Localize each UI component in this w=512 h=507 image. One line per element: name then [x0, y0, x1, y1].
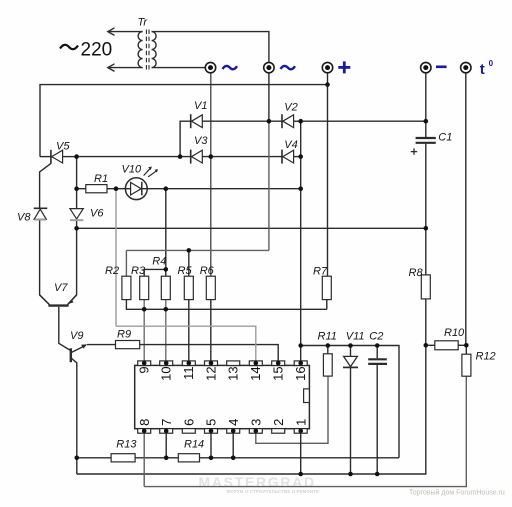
resistor R9: [116, 341, 140, 349]
wire node V5-V3 down to R1: [76, 157, 78, 189]
svg-text:1: 1: [293, 419, 308, 426]
wire C1 bottom column: [425, 144, 427, 229]
svg-text:V10: V10: [122, 163, 142, 175]
wire V8 cathode... wait V8 bottom to V7 collector: [40, 220, 50, 305]
thyristor V5: [51, 150, 63, 164]
wire R1 left stub: [77, 188, 86, 190]
wire bottom bus y474: [77, 299, 426, 474]
wire V6 bottom bus across: [77, 227, 426, 229]
resistor R2: [122, 276, 131, 299]
svg-text:R13: R13: [116, 439, 137, 451]
svg-text:MASTERGRAD: MASTERGRAD: [199, 474, 316, 490]
wire pin 8 column down: [143, 433, 145, 486]
svg-text:ФОРУМ О СТРОИТЕЛЬСТВЕ И РЕМОНТ: ФОРУМ О СТРОИТЕЛЬСТВЕ И РЕМОНТЕ: [227, 489, 320, 494]
diode V4: [282, 150, 294, 164]
svg-text:V11: V11: [346, 330, 365, 342]
svg-text:R9: R9: [117, 329, 131, 341]
wire gray across to pin 14: [116, 326, 256, 363]
pin 10 pad: [160, 361, 173, 366]
wire node column x301 down to pin 16: [300, 121, 302, 363]
zener V8: [34, 208, 48, 219]
wire R8 top leg: [425, 228, 427, 275]
capacitor C2: [368, 359, 387, 364]
wire V11 top leg: [350, 346, 352, 357]
wire R1-LED node down gray: [115, 189, 117, 327]
wire V1 anode to node B: [202, 120, 282, 122]
wire R11 top leg: [327, 346, 329, 354]
svg-text:V4: V4: [284, 139, 297, 151]
svg-text:Торговый дом ForumHouse.ru: Торговый дом ForumHouse.ru: [409, 489, 505, 497]
svg-text:13: 13: [226, 366, 241, 380]
wire V7 base down to V9: [59, 307, 71, 351]
wire R9 to pin 15: [140, 345, 279, 363]
svg-text:V2: V2: [284, 102, 297, 114]
wire terminal + column down to R7: [327, 73, 329, 277]
terminal t: [461, 62, 471, 72]
terminal ~A: [205, 62, 215, 72]
svg-text:R10: R10: [444, 327, 465, 339]
svg-text:16: 16: [293, 366, 308, 380]
svg-text:R7: R7: [313, 265, 328, 277]
wire pin 4 column: [232, 433, 234, 458]
resistor R10: [435, 341, 458, 350]
resistor R13: [111, 454, 135, 462]
wire R11 V11 C2 top row: [301, 346, 399, 458]
pin 9 pad: [138, 361, 151, 366]
wire R12 bottom to lowest bus: [144, 376, 466, 486]
svg-text:R3: R3: [131, 265, 146, 277]
svg-text:V7: V7: [54, 282, 68, 294]
wire LED V10 to node column: [166, 188, 301, 190]
svg-text:Tr: Tr: [138, 17, 149, 29]
resistor R11: [323, 354, 332, 376]
svg-text:V8: V8: [17, 212, 31, 224]
wire R13 R14 row: [77, 457, 399, 459]
wire V5 cathode stub: [40, 156, 51, 158]
wire secondary top to terminal ~B: [152, 32, 269, 63]
resistor R1: [86, 185, 107, 193]
resistor R6: [206, 276, 215, 299]
transformer Tr core: [146, 30, 149, 70]
pin 13 pad: [227, 361, 240, 366]
transformer Tr secondary winding: [152, 32, 157, 68]
op-amp U1 IC body 16-pin: [135, 365, 310, 428]
svg-text:V5: V5: [56, 141, 70, 153]
svg-text:R14: R14: [184, 439, 204, 451]
svg-text:10: 10: [159, 366, 174, 380]
pin 8 pad: [138, 429, 151, 434]
pin 2 pad: [272, 429, 285, 434]
label ~ at terminal B blue: [281, 66, 296, 69]
svg-text:R6: R6: [200, 265, 215, 277]
svg-text:3: 3: [248, 419, 263, 426]
diode V1: [191, 114, 203, 128]
transformer Tr primary winding: [138, 32, 143, 68]
wire V2 row to C1: [301, 120, 426, 122]
diode V2: [282, 114, 294, 128]
terminal plus: [322, 62, 332, 72]
transistor V9: [71, 344, 87, 362]
svg-text:t: t: [480, 61, 485, 78]
wire R1 to LED V10: [107, 188, 166, 190]
wire node B column lower to R-top bus: [268, 121, 270, 250]
svg-text:R11: R11: [318, 330, 337, 342]
svg-text:V9: V9: [70, 330, 83, 342]
watermark MASTERGRAD: [199, 474, 320, 494]
wire R5 top leg: [188, 250, 190, 276]
wire secondary bottom to terminal ~A: [152, 67, 206, 69]
svg-text:14: 14: [248, 366, 263, 380]
pin 6 pad: [182, 429, 195, 434]
pin 14 pad: [249, 361, 262, 366]
svg-text:12: 12: [203, 366, 218, 380]
wire V1 cathode corner down to V3 row: [180, 121, 191, 156]
svg-text:V6: V6: [90, 208, 104, 220]
wire R2-R5 top bus: [126, 249, 269, 251]
svg-text:220: 220: [81, 40, 113, 61]
wire R12 top leg: [465, 345, 467, 354]
pin 11 pad: [182, 361, 195, 366]
pin 12 pad: [205, 361, 218, 366]
label t0 blue: [480, 59, 494, 78]
resistor R3: [140, 276, 149, 299]
svg-text:C1: C1: [438, 132, 452, 144]
capacitor C1: [411, 138, 436, 155]
label + blue: [338, 61, 350, 73]
svg-text:15: 15: [271, 366, 286, 380]
svg-text:0: 0: [489, 59, 494, 68]
wire V5 anode to node: [63, 156, 77, 158]
IC notch right edge: [304, 389, 310, 403]
wire R3 column down to pin 9: [143, 300, 145, 363]
svg-text:2: 2: [271, 419, 286, 426]
svg-text:R1: R1: [94, 173, 108, 185]
pin 16 pad: [294, 361, 307, 366]
svg-text:4: 4: [226, 419, 241, 426]
resistor R14: [178, 454, 199, 462]
label ~ at terminal A blue: [223, 66, 238, 69]
terminal ~B: [264, 62, 274, 72]
wire terminal ~B column upper: [268, 73, 270, 122]
pin 5 pad: [205, 429, 218, 434]
wire R2 bottom leg to bottom bus: [126, 300, 326, 310]
pin 15 pad: [272, 361, 285, 366]
svg-text:R5: R5: [178, 265, 193, 277]
wire V4 anode to node: [293, 156, 300, 158]
wire pin 7 column: [165, 433, 167, 458]
wire plus bus from V5 corner to + column: [40, 85, 328, 157]
svg-text:8: 8: [137, 419, 152, 426]
svg-text:5: 5: [204, 419, 219, 426]
transistor V7: [40, 295, 77, 306]
wire terminal t column down to R10/R12 node: [465, 73, 467, 346]
svg-text:7: 7: [159, 419, 174, 426]
wire C2 top leg: [376, 346, 378, 359]
wire V9 emitter to R9: [87, 344, 116, 346]
wire terminal - column down to C1: [425, 73, 427, 138]
wire terminal ~A column down to R6: [210, 73, 212, 277]
resistor R7: [322, 276, 331, 299]
wire V2 anode to node: [293, 120, 300, 122]
wire V3 anode to V4: [202, 156, 282, 158]
wire pin 1 column: [300, 433, 302, 474]
terminal minus: [421, 62, 431, 72]
wire R4 column down to pin 10: [165, 300, 167, 363]
wire pin 5 column: [210, 433, 212, 458]
LED V10: [125, 167, 158, 200]
wire R10 left stub: [426, 344, 435, 346]
label - blue: [436, 66, 447, 69]
svg-text:R8: R8: [409, 267, 424, 279]
wire V9 collector down to R13 row and bottom bus: [71, 358, 77, 474]
wire R2 top leg: [125, 250, 127, 276]
svg-text:6: 6: [181, 419, 196, 426]
svg-text:R2: R2: [105, 265, 119, 277]
wire V6 cathode down to bus and V7 emitter: [68, 221, 77, 305]
svg-text:C2: C2: [369, 330, 383, 342]
pin 1 pad: [294, 429, 307, 434]
pin 4 pad: [227, 429, 240, 434]
wire primary bottom lead with arrow: [108, 64, 143, 72]
diode V6: [70, 209, 83, 221]
wire V11 bottom leg: [350, 368, 352, 474]
resistor R8: [421, 275, 430, 299]
wire R6 column down to pin 12: [210, 300, 212, 363]
pin 7 pad: [160, 429, 173, 434]
pin 3 pad: [249, 429, 262, 434]
svg-text:V1: V1: [194, 100, 207, 112]
resistor R4: [161, 276, 170, 299]
wire C2 bottom leg: [376, 365, 378, 474]
diode V3: [191, 150, 203, 164]
label ~220 mains: [60, 40, 112, 61]
wire R1 node down to V6: [76, 189, 78, 209]
wire R7 bottom leg: [326, 300, 328, 310]
wire R10 right stub: [458, 344, 466, 346]
resistor R12: [462, 354, 471, 376]
svg-text:11: 11: [181, 366, 196, 380]
wire primary top lead with arrow: [108, 28, 143, 36]
zener V11: [343, 356, 358, 367]
wire pin 3 to R11 bottom: [256, 376, 328, 443]
wire V5 gate slant down to V8: [40, 163, 51, 208]
wire R3 top to R4 column: [144, 269, 166, 276]
svg-text:9: 9: [137, 366, 152, 373]
resistor R5: [184, 276, 193, 299]
svg-text:R4: R4: [152, 255, 166, 267]
wire LED node down to R4: [165, 189, 167, 277]
wire V3 row: [77, 156, 191, 158]
svg-text:V3: V3: [194, 135, 208, 147]
svg-text:R12: R12: [476, 351, 496, 363]
wire R5 column down to pin 11: [188, 300, 190, 363]
